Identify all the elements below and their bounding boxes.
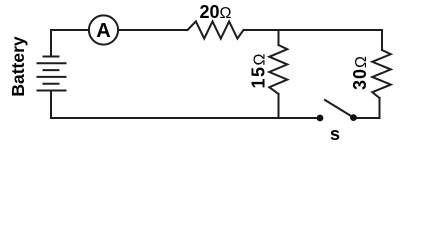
- svg-text:15Ω: 15Ω: [249, 52, 269, 89]
- svg-text:20Ω: 20Ω: [200, 2, 232, 22]
- resistor R2 15-ohm zigzag: [269, 45, 287, 94]
- svg-text:30Ω: 30Ω: [350, 55, 370, 90]
- wire bottom rail left section: [51, 91, 317, 118]
- resistor R3 30-ohm zigzag: [372, 50, 391, 98]
- svg-text:A: A: [96, 20, 110, 42]
- switch S right contact dot: [350, 114, 357, 121]
- svg-text:s: s: [330, 124, 340, 144]
- svg-text:Battery: Battery: [8, 36, 28, 97]
- switch S left contact dot: [317, 115, 324, 122]
- wire bottom rail right section: [357, 98, 380, 118]
- wire 20-ohm resistor to top-right corner: [244, 29, 383, 31]
- switch S blade: [325, 100, 354, 118]
- resistor R1 20-ohm zigzag: [188, 21, 244, 38]
- ammeter U1 circle: [89, 15, 118, 44]
- node junction 15-ohm bottom on rail: [278, 94, 280, 118]
- wire top-left from battery to ammeter: [51, 30, 89, 56]
- node junction 15-ohm top on rail: [278, 30, 280, 45]
- wire 30-ohm top stub: [381, 30, 383, 50]
- wire ammeter to 20-ohm resistor: [119, 29, 188, 31]
- battery B1 plates: [38, 57, 66, 91]
